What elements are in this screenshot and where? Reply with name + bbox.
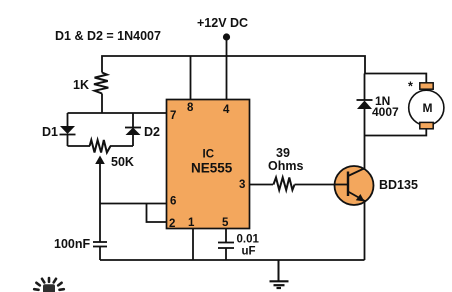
- wire pin 1 down: [192, 229, 194, 261]
- IC U1 NE555 timer body: [167, 100, 250, 229]
- svg-text:100nF: 100nF: [54, 237, 90, 251]
- wire diode vertical bottom: [364, 109, 366, 136]
- svg-text:39: 39: [276, 146, 290, 160]
- node +12V supply dot: [223, 33, 230, 40]
- wire top rail: [102, 56, 365, 74]
- svg-text:5: 5: [222, 217, 229, 229]
- motor M1: [408, 80, 444, 129]
- diode D2: [125, 125, 160, 139]
- svg-text:1: 1: [188, 217, 195, 229]
- svg-text:Ohms: Ohms: [268, 159, 303, 173]
- wire D1 branch: [67, 113, 69, 127]
- wire cap to bottom rail: [99, 247, 101, 261]
- decoration starburst icon: [34, 278, 64, 292]
- resistor R3 39 Ohms: [268, 146, 303, 190]
- svg-text:4007: 4007: [372, 105, 399, 119]
- capacitor C2 0.01uF: [218, 234, 259, 258]
- wire diode/motor bottom branch: [365, 128, 427, 136]
- svg-text:8: 8: [187, 102, 194, 114]
- wire D2 to loop bottom: [132, 135, 134, 146]
- wire cap2 to bottom rail: [225, 248, 227, 260]
- wire resistor to base: [295, 184, 337, 186]
- wire +12V node down to pin 4: [226, 37, 228, 100]
- svg-text:M: M: [423, 101, 433, 115]
- diode D1: [42, 125, 76, 139]
- svg-text:NE555: NE555: [191, 161, 233, 176]
- svg-text:7: 7: [170, 110, 176, 122]
- wire pin 7 horizontal: [68, 112, 167, 114]
- svg-text:1K: 1K: [73, 78, 89, 92]
- svg-text:BD135: BD135: [379, 178, 418, 192]
- svg-text:D2: D2: [144, 125, 160, 139]
- svg-text:+12V DC: +12V DC: [197, 16, 248, 30]
- transistor Q1 BD135: [335, 166, 418, 205]
- svg-text:3: 3: [239, 179, 245, 191]
- svg-text:0.01: 0.01: [237, 234, 260, 246]
- wire D2 branch: [132, 113, 134, 128]
- wire bottom rail: [100, 259, 365, 261]
- wire pin 8 from rail: [190, 56, 192, 100]
- svg-text:uF: uF: [242, 246, 256, 258]
- svg-text:D1 & D2 = 1N4007: D1 & D2 = 1N4007: [55, 29, 161, 43]
- wire emitter down to bottom rail: [364, 200, 366, 260]
- wire loop bottom left: [68, 145, 91, 147]
- wire pin 3 horizontal: [250, 184, 274, 186]
- wire step to pin 2: [147, 204, 167, 223]
- svg-text:2: 2: [169, 218, 175, 230]
- svg-text:6: 6: [170, 196, 176, 208]
- wire wiper down: [99, 162, 101, 242]
- svg-text:*: *: [408, 80, 413, 94]
- wire pin 5 down: [225, 229, 227, 243]
- svg-text:IC: IC: [203, 149, 215, 161]
- wire pin 6 horizontal: [100, 203, 167, 205]
- wire collector up to motor node: [364, 136, 366, 171]
- diode D3 1N4007 flyback: [357, 94, 400, 119]
- potentiometer 50K: [90, 140, 134, 169]
- ground: [270, 260, 289, 288]
- wire diode vertical top: [364, 74, 366, 101]
- svg-text:50K: 50K: [111, 155, 134, 169]
- wire D1 to loop bottom: [67, 135, 69, 147]
- svg-text:D1: D1: [42, 125, 58, 139]
- wire diode/motor top branch: [365, 74, 427, 84]
- wire loop bottom right: [110, 145, 133, 147]
- resistor R1 1K: [73, 73, 108, 94]
- svg-text:4: 4: [223, 104, 230, 116]
- wire 1K bottom lead: [101, 94, 103, 114]
- capacitor 100nF: [54, 237, 107, 251]
